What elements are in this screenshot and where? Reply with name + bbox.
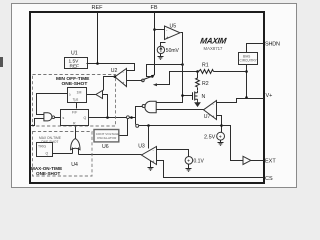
dashed box MIN OFF-TIME ONE-SHOT (33, 75, 116, 127)
U7 plus input wire (217, 116, 222, 133)
ground (0.1V) (186, 164, 192, 171)
svg-text:7μs: 7μs (73, 98, 79, 102)
current source 50mV (157, 46, 164, 53)
50mV source wire to U5 + (161, 43, 166, 47)
node gate on line B (181, 94, 184, 97)
node U7/2.5V junction (220, 124, 223, 127)
node U3 riser (147, 124, 150, 127)
svg-text:N: N (202, 94, 206, 100)
svg-text:TRIG: TRIG (38, 145, 46, 149)
ground (2.5V) (218, 140, 224, 145)
svg-text:U1: U1 (71, 50, 78, 56)
wire U1 to U2 top input via REF node (87, 64, 135, 71)
buffer input wire (103, 95, 108, 118)
OR output wire up to latch R (75, 127, 77, 139)
ground (50mV) (158, 54, 164, 60)
edge artifact left (0, 57, 3, 67)
OR gate U4 (points up) (71, 139, 80, 150)
svg-text:ONE-SHOT: ONE-SHOT (36, 171, 60, 176)
svg-text:R1: R1 (202, 62, 209, 68)
svg-text:s: s (63, 116, 65, 120)
svg-text:CS: CS (265, 176, 273, 182)
U2 output node (114, 75, 117, 78)
OR input stubs (72, 148, 74, 154)
one-shot output wire to left (37, 94, 68, 115)
svg-text:50mV: 50mV (166, 48, 180, 54)
EXT driver buffer (243, 156, 251, 164)
U3 output wire to OR gate (79, 154, 142, 156)
svg-text:U6: U6 (102, 144, 109, 150)
comparator U7 (points left) (204, 101, 217, 120)
svg-text:U3: U3 (138, 144, 145, 150)
long wire to U7 plus junction (139, 125, 221, 127)
svg-text:FB: FB (151, 5, 158, 11)
wire bias box down to V+ node (246, 65, 248, 99)
REF pin wire (97, 13, 99, 64)
FB pin wire (153, 13, 155, 77)
comparator U3 (points left) (142, 147, 157, 165)
trig box (max on-time) (37, 143, 53, 157)
buffer (min off-time, points left) (96, 91, 103, 99)
riser down to U3 (148, 126, 150, 149)
node on U5 output line (181, 63, 184, 66)
line B continues to NAND input (157, 96, 183, 103)
MOSFET gate wire (183, 95, 193, 97)
svg-text:2.5V: 2.5V (204, 135, 216, 141)
inverter bubble on long wire (136, 124, 139, 127)
op-amp U2 (points left) (115, 69, 127, 87)
node on latch wire (130, 116, 133, 119)
EXT output wire (251, 160, 264, 162)
AND gate (latch input) (44, 113, 55, 121)
svg-text:+: + (219, 135, 222, 141)
U1 1.5V REF box (65, 58, 88, 69)
svg-text:1M: 1M (77, 91, 82, 95)
U7 output wire to NAND input (157, 109, 204, 111)
trig box output wire (53, 153, 73, 155)
U3 top input wire to 0.1V (157, 150, 189, 157)
bias circuitry box (239, 53, 258, 65)
svg-text:U4: U4 (71, 162, 78, 168)
svg-text:CONT VOLTAGE: CONT VOLTAGE (96, 132, 120, 136)
AND gate input 2 wire (31, 119, 44, 126)
switch lower throw arrow (153, 83, 157, 86)
node R1/R2 (196, 70, 199, 73)
U2 output wire to buffer (104, 77, 115, 91)
U3 ground (148, 161, 154, 171)
wire switch contact up-over to line B (147, 65, 183, 77)
U3 bottom input wire to CS (157, 161, 264, 178)
latch box (61, 110, 89, 126)
IC boundary box (30, 12, 264, 183)
U2 bottom input wire from switch pivot (127, 80, 143, 82)
wire latch to NAND vertical (89, 117, 136, 119)
svg-text:R2: R2 (202, 81, 209, 87)
svg-text:REF: REF (92, 5, 104, 11)
one-shot to latch wire (76, 103, 78, 109)
resistor R2 (196, 72, 200, 91)
switch lever (144, 77, 152, 80)
svg-text:OSCILLATOR: OSCILLATOR (97, 136, 117, 140)
wire lower throw to R1/R2 node (157, 72, 198, 85)
node buffer branch (106, 116, 109, 119)
FB node to U5 minus input (153, 28, 156, 31)
SHDN wire (247, 44, 264, 53)
node R1 right (245, 70, 248, 73)
svg-text:Q: Q (84, 116, 87, 120)
U6 output riser with bubble on latch wire (119, 119, 128, 136)
R1 wire to node (214, 71, 247, 73)
svg-text:+: + (187, 159, 190, 165)
svg-text:MAXIM: MAXIM (200, 37, 228, 46)
svg-text:EXT: EXT (265, 159, 276, 165)
outer frame (12, 4, 297, 188)
svg-text:Q: Q (46, 152, 49, 156)
switch pivot (142, 79, 145, 82)
NAND output wire down (136, 107, 143, 125)
switch contact node (FB) (151, 75, 154, 78)
NAND gate (mirrored, output left) (142, 101, 156, 112)
dashed box MAX-ON-TIME ONE-SHOT (33, 132, 93, 177)
op-amp U5 (points right) (165, 26, 181, 40)
svg-text:0.1V: 0.1V (194, 159, 205, 165)
U6 oscillator box (94, 130, 119, 142)
V+ pin wire (247, 98, 264, 100)
source down-arrow (to GND) (195, 101, 200, 107)
svg-text:MAX8717: MAX8717 (204, 46, 223, 51)
node V+ (245, 96, 248, 99)
transistor N (MOSFET) (193, 91, 198, 101)
resistor R1 (199, 70, 214, 74)
one-shot box (min off-time) (68, 88, 87, 103)
svg-text:ONE-SHOT: ONE-SHOT (62, 81, 88, 87)
svg-text:CIRCUITRY: CIRCUITRY (240, 59, 258, 63)
svg-text:≥: ≥ (69, 93, 71, 97)
wire to EXT driver (222, 126, 244, 161)
U7 minus input wire to V+ node (217, 99, 247, 103)
svg-text:REF: REF (70, 63, 80, 69)
voltage source 0.1V (185, 157, 193, 165)
U5 output wire down (line B) (181, 33, 183, 96)
svg-text:F/F: F/F (72, 111, 77, 115)
svg-text:SHDN: SHDN (265, 42, 280, 48)
svg-text:V+: V+ (266, 93, 273, 99)
buffer output wire (87, 94, 96, 96)
AND output wire (55, 117, 61, 119)
node REF junction (96, 62, 99, 65)
voltage source 2.5V (217, 132, 225, 140)
svg-text:U2: U2 (111, 68, 118, 74)
